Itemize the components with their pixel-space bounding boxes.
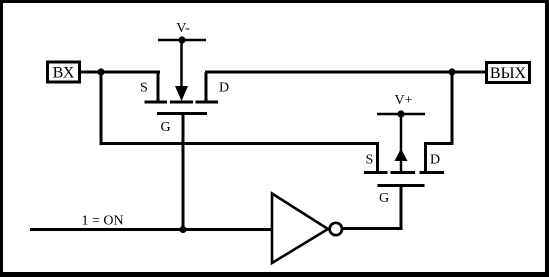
wire [376, 142, 379, 174]
output terminal ВЫХ [487, 63, 530, 83]
svg-text:V+: V+ [394, 93, 412, 108]
node V- [178, 36, 185, 43]
wire [30, 228, 272, 231]
transistor Q2 [364, 173, 444, 186]
wire [424, 142, 454, 145]
wire [80, 71, 160, 74]
wire [205, 72, 208, 103]
svg-text:S: S [366, 153, 374, 168]
wire [100, 142, 379, 145]
svg-text:V-: V- [176, 21, 190, 36]
wire [452, 71, 486, 74]
node A [97, 68, 104, 75]
svg-text:G: G [379, 191, 389, 206]
substrate arrow Q2 [395, 114, 408, 173]
node C [179, 226, 186, 233]
wire [424, 142, 427, 174]
supply rail V- [158, 39, 206, 42]
svg-text:D: D [219, 81, 229, 96]
node B [448, 68, 455, 75]
svg-text:ВХ: ВХ [53, 65, 75, 82]
input terminal BX [48, 62, 80, 82]
svg-text:G: G [161, 120, 171, 135]
svg-text:ВЫХ: ВЫХ [490, 65, 527, 82]
substrate arrow Q1 [175, 40, 188, 101]
transistor Q1 [145, 102, 219, 114]
supply rail V+ [377, 113, 425, 116]
wire [451, 72, 454, 145]
wire [100, 72, 103, 145]
svg-text:S: S [140, 81, 148, 96]
node V+ [397, 110, 404, 117]
wire [157, 71, 160, 103]
svg-text:D: D [430, 153, 440, 168]
wire [343, 227, 403, 230]
wire [182, 114, 185, 230]
inverter U1 [272, 194, 342, 264]
wire [205, 71, 452, 74]
wire [400, 186, 403, 231]
svg-text:1 = ON: 1 = ON [82, 214, 124, 229]
